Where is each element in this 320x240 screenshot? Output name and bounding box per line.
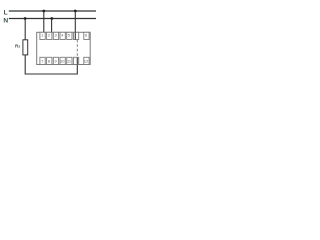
- svg-text:8: 8: [48, 58, 50, 63]
- svg-text:6: 6: [85, 33, 87, 38]
- svg-text:5: 5: [68, 33, 70, 38]
- svg-text:12: 12: [84, 58, 88, 63]
- svg-text:11: 11: [67, 58, 71, 63]
- svg-text:N: N: [3, 17, 8, 24]
- svg-text:s: s: [18, 45, 20, 49]
- svg-text:L: L: [4, 10, 8, 17]
- svg-text:3: 3: [55, 33, 57, 38]
- svg-text:1: 1: [41, 33, 43, 38]
- svg-text:2: 2: [48, 33, 50, 38]
- svg-text:7: 7: [41, 58, 43, 63]
- svg-text:9: 9: [55, 58, 57, 63]
